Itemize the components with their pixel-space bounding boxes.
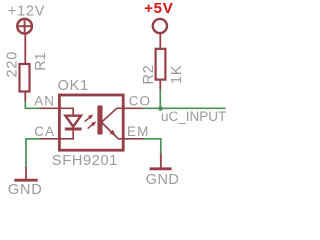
resistor R2 body [156,49,166,80]
svg-text:R2: R2 [141,64,157,84]
gnd pin left [25,167,27,179]
emitter arrowhead [109,130,115,136]
junction [158,106,163,111]
svg-text:+12V: +12V [8,4,45,20]
pin R1 bottom [24,92,26,102]
pin CO [123,107,144,109]
LED cathode lead [60,129,73,139]
svg-text:SFH9201: SFH9201 [52,153,118,169]
svg-text:GND: GND [146,172,179,188]
pin R2 bottom [159,80,161,90]
wire R2 to junction [159,89,161,108]
ground left bar [14,179,37,182]
collector line [102,108,125,122]
pin EM [123,138,144,140]
svg-text:uC_INPUT: uC_INPUT [161,109,226,124]
pin CA [40,138,61,140]
pin AN [40,107,61,109]
svg-text:+5V: +5V [144,0,173,17]
ground right bar [150,167,172,170]
svg-text:CA: CA [34,124,55,139]
light arrow 1 [85,114,94,121]
wire CA to GND [26,139,41,168]
resistor R1 body [20,64,30,92]
svg-text:CO: CO [129,93,151,108]
svg-text:EM: EM [127,124,149,139]
svg-text:1K: 1K [169,65,185,84]
supply symbol +12V (circle with plus) [17,19,32,34]
phototransistor base bar [97,106,102,135]
svg-text:AN: AN [34,93,55,108]
LED anode lead [60,108,73,115]
net uC_INPUT wire [143,107,226,109]
LED cathode bar [65,128,82,131]
light arrow 2 [88,121,97,128]
emitter line [102,123,125,139]
optocoupler OK1 body [59,95,123,150]
svg-text:GND: GND [8,182,43,198]
LED D1 triangle [65,116,81,127]
svg-text:R1: R1 [33,52,49,71]
supply symbol +5V (circle) [153,19,167,33]
wire supply to R1 [24,34,26,64]
svg-text:220: 220 [4,51,20,78]
gnd pin right [160,154,162,168]
wire EM to GND [143,139,161,154]
wire supply to R2 [159,33,161,49]
svg-text:OK1: OK1 [58,78,89,94]
wire R1 to AN [25,101,40,108]
